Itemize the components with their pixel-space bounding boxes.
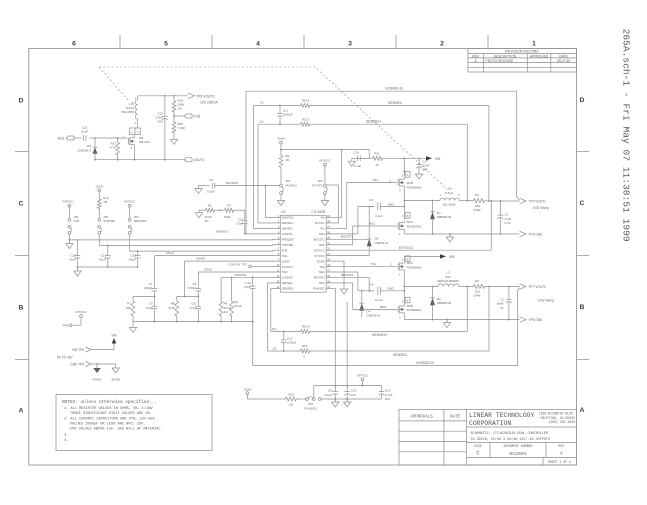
svg-text:RUNSS1: RUNSS1 xyxy=(226,181,239,185)
sheet border frame xyxy=(29,48,577,465)
svg-text:FCB: FCB xyxy=(73,219,79,223)
svg-text:FCB: FCB xyxy=(194,114,200,118)
svg-text:PGND: PGND xyxy=(93,377,103,381)
node INTVCC above JP4 xyxy=(124,199,136,218)
wire VOSNS1 to pin 4 xyxy=(216,229,273,234)
wire BOOST1 net xyxy=(332,207,374,240)
svg-text:BG1: BG1 xyxy=(58,136,65,140)
svg-text:NOTES: unless otherwise specif: NOTES: unless otherwise specified... xyxy=(62,400,157,405)
svg-text:SGND: SGND xyxy=(111,377,121,381)
svg-text:SHEET 1 OF 1: SHEET 1 OF 1 xyxy=(548,460,571,464)
op-amp U1 LTC1628 controller IC xyxy=(272,210,332,292)
svg-text:MILPITAS, CA 95035: MILPITAS, CA 95035 xyxy=(541,416,576,420)
svg-text:20V: 20V xyxy=(158,120,163,124)
power flag VIN input xyxy=(111,333,117,349)
svg-text:VOSNS3: VOSNS3 xyxy=(282,276,293,280)
svg-text:3.3V 4Amp: 3.3V 4Amp xyxy=(538,299,554,303)
svg-text:FREQSET: FREQSET xyxy=(282,238,295,242)
svg-text:BG1: BG1 xyxy=(319,243,325,247)
terminal TP9 VOUT3 xyxy=(188,93,218,104)
jumper JP5 STBYMD xyxy=(98,215,115,234)
wire STBYMD net xyxy=(99,234,273,246)
svg-text:1000pF: 1000pF xyxy=(283,112,293,116)
svg-text:27pF: 27pF xyxy=(146,306,153,310)
wire FLTCPL to pin xyxy=(326,185,338,223)
svg-text:B: B xyxy=(580,304,585,311)
inductor L1A xyxy=(440,187,460,207)
svg-text:2. ALL CERAMIC CAPACITORS ARE: 2. ALL CERAMIC CAPACITORS ARE X7R, 10V-5… xyxy=(64,417,157,421)
capacitor C16 xyxy=(379,386,393,402)
wire VOUT3 top rail xyxy=(138,95,188,97)
resistor R20 xyxy=(172,119,185,138)
svg-text:U1: U1 xyxy=(281,210,285,214)
wire EXTVCC net xyxy=(332,201,491,250)
resistor R13 xyxy=(299,117,311,126)
ground SGND symbol xyxy=(111,364,121,381)
svg-text:C3: C3 xyxy=(369,198,373,202)
wire L2 to R2 xyxy=(459,286,472,288)
svg-text:B: B xyxy=(19,304,24,311)
svg-text:0.1uF: 0.1uF xyxy=(324,393,332,397)
wire pin2 SENSE1+ stub xyxy=(258,222,273,224)
node INTVCC above C16 xyxy=(357,373,369,385)
svg-text:INTVCC: INTVCC xyxy=(319,158,331,162)
resistor R5 xyxy=(204,204,216,223)
svg-text:(ITH1): (ITH1) xyxy=(166,251,174,255)
svg-text:C6: C6 xyxy=(328,388,332,392)
capacitor C9 xyxy=(146,297,158,322)
wire VIN rail channel 1 xyxy=(384,157,426,159)
svg-text:LINEAR TECHNOLOGY: LINEAR TECHNOLOGY xyxy=(469,412,534,419)
svg-text:CMDSH-3: CMDSH-3 xyxy=(367,314,381,318)
svg-text:FREQSET: FREQSET xyxy=(134,219,148,223)
svg-text:A: A xyxy=(560,452,563,457)
svg-text:5V TO 30V: 5V TO 30V xyxy=(57,356,74,360)
capacitor C8 xyxy=(188,282,201,297)
inductor L1B xyxy=(121,96,137,125)
svg-text:1/4W: 1/4W xyxy=(473,208,480,212)
wire pin14 SENSE2+ drop xyxy=(271,288,273,331)
wire SENSE1- net top xyxy=(254,101,489,229)
svg-text:VIN: VIN xyxy=(111,333,117,337)
svg-text:M1B: M1B xyxy=(407,181,413,185)
svg-text:INTVCC: INTVCC xyxy=(357,373,369,377)
capacitor C21 xyxy=(98,246,110,268)
svg-text:6.3V: 6.3V xyxy=(505,221,511,225)
svg-text:3: 3 xyxy=(348,41,352,48)
capacitor C10 xyxy=(189,297,201,322)
wire SENSE2+ net xyxy=(271,287,468,338)
svg-text:VOUT1: VOUT1 xyxy=(194,158,205,162)
svg-text:4: 4 xyxy=(256,41,260,48)
svg-text:27pF: 27pF xyxy=(237,222,244,226)
svg-text:SENSE2-: SENSE2- xyxy=(282,281,294,285)
svg-text:REV: REV xyxy=(558,444,564,448)
svg-text:4.: 4. xyxy=(64,439,68,443)
wire VIN pin riser xyxy=(332,150,341,218)
resistor R2 xyxy=(472,279,486,298)
svg-text:TP3 GND: TP3 GND xyxy=(529,232,544,236)
svg-text:VOSNS3: VOSNS3 xyxy=(234,273,247,277)
zone row labels D C B A left xyxy=(19,97,24,414)
svg-text:10: 10 xyxy=(375,163,379,167)
svg-text:1/4W: 1/4W xyxy=(473,294,480,298)
svg-text:05-07-99: 05-07-99 xyxy=(557,59,570,63)
resistor R9 xyxy=(279,150,290,175)
svg-text:7.32K: 7.32K xyxy=(178,126,186,130)
svg-text:3.3VOUT TP1: 3.3VOUT TP1 xyxy=(228,262,247,266)
svg-text:BG2: BG2 xyxy=(380,305,386,309)
svg-text:INTVCC: INTVCC xyxy=(124,199,136,203)
svg-text:S2+: S2+ xyxy=(272,327,277,331)
svg-text:12V 150mA: 12V 150mA xyxy=(200,100,218,104)
capacitor C17 with ground xyxy=(415,158,429,179)
resistor R1 xyxy=(472,193,486,212)
terminal BG1 xyxy=(58,136,74,140)
svg-text:BG2: BG2 xyxy=(319,281,325,285)
svg-text:BOOST1: BOOST1 xyxy=(341,235,354,239)
node INTVCC above JP6 xyxy=(62,199,74,218)
wire M3 gate / BG1 net xyxy=(74,137,128,141)
wire L1A to R1 xyxy=(460,200,473,202)
svg-text:0.1uF: 0.1uF xyxy=(375,298,383,302)
svg-text:1M: 1M xyxy=(103,200,108,204)
capacitor C1 xyxy=(498,201,512,234)
capacitor C22 xyxy=(155,96,167,160)
svg-text:QVIN: QVIN xyxy=(96,185,103,189)
wire BG2 net xyxy=(332,283,397,310)
svg-text:15K: 15K xyxy=(126,306,131,310)
wire VOSNS1-B net xyxy=(246,86,520,233)
power flag VIN channel 2 xyxy=(440,254,455,259)
ground below JP6 xyxy=(66,240,74,249)
svg-text:TP9 VOUT3: TP9 VOUT3 xyxy=(196,94,215,98)
wire TP1 3.3VOUT xyxy=(228,262,273,268)
svg-text:C4: C4 xyxy=(369,282,373,286)
svg-text:27pF: 27pF xyxy=(189,306,196,310)
svg-text:R3: R3 xyxy=(227,204,231,208)
svg-text:D: D xyxy=(19,97,24,104)
wire VOUT2 rail xyxy=(486,286,520,288)
wire VOSNS3 net xyxy=(221,273,273,279)
svg-text:10V: 10V xyxy=(385,397,390,401)
wire VOUT1 rail xyxy=(486,200,520,202)
svg-text:TG2: TG2 xyxy=(370,262,376,266)
svg-text:.01uF: .01uF xyxy=(98,258,106,262)
svg-text:FLTCPL: FLTCPL xyxy=(315,221,325,225)
svg-text:D5: D5 xyxy=(87,144,91,148)
svg-text:C5: C5 xyxy=(209,178,213,182)
svg-text:DATE: DATE xyxy=(559,54,568,58)
svg-text:5V-30VIN, 5V/4A 3.3V/4A 12V/.2: 5V-30VIN, 5V/4A 3.3V/4A 12V/.2A OUTPUTS xyxy=(471,437,550,442)
svg-text:C: C xyxy=(476,451,479,457)
svg-text:SENSE2+: SENSE2+ xyxy=(372,333,388,337)
svg-text:.01uF: .01uF xyxy=(81,129,89,133)
diode D4 CMDSH-3 xyxy=(359,290,380,318)
capacitor C5 with ground xyxy=(195,178,280,193)
svg-text:INTVCC: INTVCC xyxy=(75,310,87,314)
svg-text:INTVCC: INTVCC xyxy=(62,199,74,203)
svg-text:ITH1: ITH1 xyxy=(282,254,288,258)
wire RUN/SS1 to pin 1 xyxy=(265,186,273,218)
svg-text:1M: 1M xyxy=(286,158,291,162)
svg-text:D: D xyxy=(580,97,585,104)
svg-text:265A.sch-1 - Fri May 07 11:38:: 265A.sch-1 - Fri May 07 11:38:51 1999 xyxy=(621,29,632,242)
svg-text:VOSNS1-B: VOSNS1-B xyxy=(385,86,403,90)
wire INTVCC riser lower xyxy=(346,302,348,386)
svg-text:S1-: S1- xyxy=(260,101,264,105)
svg-text:PROTO RELEASE: PROTO RELEASE xyxy=(486,59,515,63)
inductor L2 xyxy=(437,271,460,287)
terminal TP6 GND xyxy=(520,317,544,323)
svg-text:VIN: VIN xyxy=(449,255,455,259)
svg-text:TG1: TG1 xyxy=(319,227,325,231)
revision record table xyxy=(468,48,577,72)
svg-text:RUN/SS2: RUN/SS2 xyxy=(313,287,325,291)
wire QVIN to C18 rail xyxy=(354,150,371,159)
svg-text:CMDSH-3: CMDSH-3 xyxy=(375,241,389,245)
wire SGND net xyxy=(185,256,274,296)
svg-text:470pF: 470pF xyxy=(188,286,197,290)
svg-text:DATE: DATE xyxy=(450,416,461,420)
capacitor C2 xyxy=(497,287,512,320)
wire pin3 SENSE1- stub xyxy=(254,227,274,229)
svg-text:R13 0: R13 0 xyxy=(302,117,310,121)
svg-text:1uF: 1uF xyxy=(351,393,356,397)
svg-text:EXTVCC: EXTVCC xyxy=(399,246,414,250)
svg-text:1. ALL RESISTOR VALUES IN OHMS: 1. ALL RESISTOR VALUES IN OHMS, 5%, 1/16… xyxy=(64,406,153,411)
svg-text:.01uF: .01uF xyxy=(128,258,136,262)
zone row ticks left and right xyxy=(15,152,589,360)
wire PGND pin with ground xyxy=(332,261,348,294)
svg-text:27pF: 27pF xyxy=(244,285,251,289)
wire comp2 mid segment xyxy=(177,296,199,298)
svg-text:ITH2: ITH2 xyxy=(282,270,288,274)
dashed callout outline for optional 12V winding xyxy=(99,67,446,188)
ground below JP1 xyxy=(277,194,285,205)
wire RUN/SS2 upper rail xyxy=(314,385,382,387)
svg-text:6: 6 xyxy=(72,41,76,48)
wire SW1 net xyxy=(332,207,374,234)
jumper JP2 RUNSS2 xyxy=(298,386,321,411)
diode D2 MBRM140 xyxy=(430,287,452,320)
wire FCB tap xyxy=(173,114,184,119)
capacitor C7 xyxy=(144,282,157,297)
wire VIN rail channel 2 xyxy=(404,256,440,261)
wire comp ground bus xyxy=(133,321,254,323)
svg-text:VIN: VIN xyxy=(435,157,441,161)
ground left of R5 xyxy=(195,210,204,218)
ground below R20 xyxy=(170,137,178,144)
svg-text:(ITH2): (ITH2) xyxy=(204,267,212,271)
svg-text:TP8: TP8 xyxy=(62,323,68,327)
wire BG1 net xyxy=(332,221,397,244)
svg-text:VALUES 1000pF OR LESS ARE NPO,: VALUES 1000pF OR LESS ARE NPO, 25V. xyxy=(70,422,145,426)
resistor R12 xyxy=(97,196,108,219)
jumper JP1 RUNSS1 xyxy=(280,175,298,195)
node QVIN bottom xyxy=(244,387,284,399)
svg-text:SIZE: SIZE xyxy=(474,444,482,448)
svg-text:R15 0: R15 0 xyxy=(302,99,310,103)
zone column labels 6 5 4 3 2 1 xyxy=(72,41,536,48)
wire VOUT1 aux rail xyxy=(94,159,184,161)
svg-text:S2-: S2- xyxy=(273,347,277,351)
ground below comp bus xyxy=(129,322,137,333)
ground on GND rail 1 xyxy=(446,234,454,242)
svg-text:A: A xyxy=(19,407,24,414)
svg-text:LTC1628: LTC1628 xyxy=(311,210,325,214)
svg-text:VIN: VIN xyxy=(320,216,325,220)
transistor M1B FDS6936A top switch xyxy=(398,158,421,200)
svg-text:QVIN: QVIN xyxy=(244,387,251,391)
svg-text:TG1: TG1 xyxy=(372,178,378,182)
svg-text:M1A: M1A xyxy=(407,220,413,224)
resistor R8 xyxy=(169,297,179,322)
svg-text:R2: R2 xyxy=(475,279,479,283)
transistor M2A FDS6936A top switch xyxy=(398,256,421,287)
svg-text:5.0V 4Amp: 5.0V 4Amp xyxy=(533,206,549,210)
svg-text:SENSE2-: SENSE2- xyxy=(393,353,409,357)
diode D3 CMDSH-3 xyxy=(367,237,389,256)
svg-text:PGND: PGND xyxy=(317,259,325,263)
wire TG1 net xyxy=(332,178,397,228)
svg-text:SW2: SW2 xyxy=(388,287,395,291)
node INTVCC above JP3 xyxy=(319,158,331,184)
svg-text:IRLL014: IRLL014 xyxy=(139,140,151,144)
svg-text:FCB: FCB xyxy=(282,248,288,252)
resistor R7 xyxy=(126,297,135,322)
resistor R10 xyxy=(284,392,298,406)
ground below JP3 xyxy=(321,194,329,205)
svg-text:INTVCC: INTVCC xyxy=(315,254,325,258)
svg-text:4.7K: 4.7K xyxy=(110,146,116,150)
wire INTVCC pin stub xyxy=(332,255,369,257)
zone column ticks top xyxy=(120,35,488,48)
capacitor C12 xyxy=(281,331,297,352)
svg-text:6.8K: 6.8K xyxy=(169,306,175,310)
wire SENSE2- net xyxy=(268,287,489,358)
wire R5 R3 junction xyxy=(216,209,223,211)
svg-text:FOR VALUES ABOVE 1uF, SEE BILL: FOR VALUES ABOVE 1uF, SEE BILL OF MATERI… xyxy=(70,427,163,431)
capacitor C20 xyxy=(128,251,140,267)
svg-text:VOSNS2-B: VOSNS2-B xyxy=(416,361,434,365)
svg-text:MBRM140: MBRM140 xyxy=(437,215,452,219)
wire VOSNS2-B net xyxy=(252,288,520,366)
svg-text:C: C xyxy=(580,200,585,207)
svg-text:TP2 VOUT1: TP2 VOUT1 xyxy=(529,199,547,203)
svg-text:VIN TP4: VIN TP4 xyxy=(72,348,84,352)
wire ITH2 net xyxy=(198,267,273,283)
svg-text:100K: 100K xyxy=(224,215,231,219)
svg-text:220pF: 220pF xyxy=(144,286,153,290)
jumper JP6 FCB xyxy=(68,215,79,234)
notes box xyxy=(56,394,212,450)
svg-text:SENSE1-: SENSE1- xyxy=(388,101,404,105)
svg-text:FLTCPL: FLTCPL xyxy=(312,183,323,187)
node QVIN top xyxy=(277,137,284,150)
diode D1 MBRM140 xyxy=(430,201,452,235)
svg-text:C16: C16 xyxy=(385,388,391,392)
wire QVIN bus xyxy=(280,149,369,151)
svg-text:TP6 GND: TP6 GND xyxy=(529,318,544,322)
svg-text:BOOST1: BOOST1 xyxy=(314,238,325,242)
capacitor C23 xyxy=(81,125,89,140)
svg-text:BOOST2: BOOST2 xyxy=(314,276,325,280)
svg-text:REV: REV xyxy=(472,54,480,58)
wire RUN/SS2 riser to C6 rail xyxy=(332,288,335,385)
svg-text:DOCUMENT NUMBER: DOCUMENT NUMBER xyxy=(504,444,533,448)
wire FREQSET net xyxy=(69,234,274,241)
svg-text:R16: R16 xyxy=(302,344,308,348)
jumper JP3 FLTCPL xyxy=(312,179,327,194)
svg-text:THREE SIGNIFICANT DIGIT VALUES: THREE SIGNIFICANT DIGIT VALUES ARE 1%. xyxy=(70,412,152,416)
wire ITH1 net xyxy=(155,251,274,283)
svg-text:C15: C15 xyxy=(351,388,357,392)
svg-text:SGND: SGND xyxy=(196,256,206,260)
svg-text:0.1uF: 0.1uF xyxy=(207,190,215,194)
svg-text:EXTVCC: EXTVCC xyxy=(314,248,325,252)
wire C14 to VOSNS2-B corner xyxy=(252,292,254,366)
svg-text:QVIN: QVIN xyxy=(277,137,284,141)
wire lower ground rail xyxy=(321,398,382,400)
svg-text:SW2: SW2 xyxy=(319,270,325,274)
svg-text:5: 5 xyxy=(164,41,168,48)
svg-text:TG2: TG2 xyxy=(319,265,325,269)
svg-text:SW1: SW1 xyxy=(319,232,325,236)
label 5V TO 30V xyxy=(57,356,74,360)
wire SW2 node xyxy=(403,286,438,304)
svg-text:SW1: SW1 xyxy=(388,202,395,206)
svg-text:3.: 3. xyxy=(64,434,68,438)
capacitor C3 xyxy=(369,198,404,218)
wire TG2 net xyxy=(332,262,397,267)
svg-text:4V: 4V xyxy=(500,306,504,310)
capacitor C19 xyxy=(68,240,80,267)
svg-text:RUNSS2: RUNSS2 xyxy=(304,406,317,410)
terminal VOUT1 xyxy=(184,158,204,162)
ground PGND symbol xyxy=(93,364,103,381)
svg-text:STBYMD: STBYMD xyxy=(282,243,293,247)
wire comp1 mid segment xyxy=(133,296,155,298)
diode D5 CMDSH-3 xyxy=(77,138,97,160)
svg-text:63.4K: 63.4K xyxy=(234,304,242,308)
svg-text:BOOST2: BOOST2 xyxy=(341,273,354,277)
terminal TP3 GND xyxy=(520,231,544,237)
svg-text:S1+: S1+ xyxy=(259,119,264,123)
svg-text:BG1: BG1 xyxy=(369,221,375,225)
svg-text:C: C xyxy=(19,200,24,207)
transistor M1A FDS6936A bottom switch xyxy=(398,213,421,236)
svg-text:VOSNS1: VOSNS1 xyxy=(216,229,229,233)
svg-text:CMDSH-3: CMDSH-3 xyxy=(77,148,91,152)
svg-text:501-0655: 501-0655 xyxy=(443,203,456,207)
svg-text:DC265A: DC265A xyxy=(509,451,526,457)
svg-text:APPROVALS: APPROVALS xyxy=(410,416,433,420)
svg-text:4.7uF: 4.7uF xyxy=(385,393,393,397)
svg-text:R11: R11 xyxy=(374,152,380,156)
svg-text:SGND: SGND xyxy=(282,259,290,263)
terminal TP2 VOUT1 xyxy=(520,198,549,210)
svg-text:FDS6936A: FDS6936A xyxy=(407,308,422,312)
jumper JP4 FREQSET xyxy=(128,215,147,234)
svg-text:FDS6936A: FDS6936A xyxy=(407,265,422,269)
svg-text:VOSNS1: VOSNS1 xyxy=(282,232,293,236)
svg-text:SCHEMATIC: LTC1628CG28 DUAL CO: SCHEMATIC: LTC1628CG28 DUAL CONTROLLER xyxy=(471,432,548,436)
svg-text:CORPORATION: CORPORATION xyxy=(469,420,511,427)
svg-text:SENSE1+: SENSE1+ xyxy=(282,221,295,225)
wire GND rail channel 2 xyxy=(404,319,519,321)
svg-text:1630 McCARTHY BLVD.: 1630 McCARTHY BLVD. xyxy=(539,411,575,415)
